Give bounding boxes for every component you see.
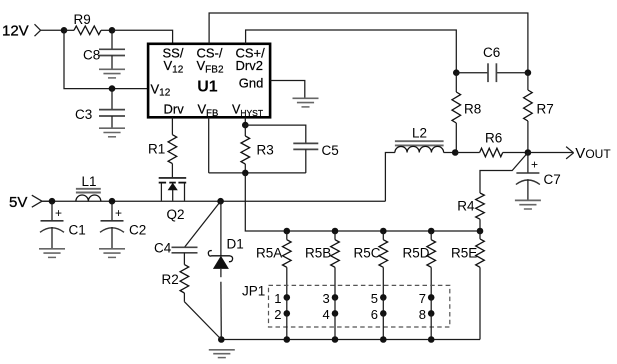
capacitor C6 <box>456 45 528 82</box>
node: R9 output junction <box>109 27 116 34</box>
capacitor C7 <box>516 153 561 201</box>
svg-text:R4: R4 <box>457 199 475 214</box>
wire: VFB pin down to feedback bar <box>208 117 210 173</box>
svg-text:C5: C5 <box>322 143 339 158</box>
wire: R9 junction to SS/V12 pin <box>112 30 173 44</box>
pin label CS-/VFB2 <box>197 45 224 75</box>
pin label Gnd <box>239 76 264 91</box>
wire: JP1 pin 4 to bottom rail <box>334 313 336 339</box>
svg-text:L2: L2 <box>412 126 427 141</box>
resistor R1 <box>148 117 177 177</box>
inductor L2 <box>395 126 455 153</box>
wire: Gnd pin to ground <box>270 81 305 99</box>
wire: bottom ground rail <box>221 339 480 341</box>
port 5V input <box>9 194 52 211</box>
svg-text:Drv2: Drv2 <box>236 58 263 73</box>
node: L2/R8/R6 junction <box>452 149 459 156</box>
pin label V12 (left) <box>151 82 171 99</box>
node: C6 left junction <box>453 69 460 76</box>
port VOUT <box>528 145 611 162</box>
wire: VHYST pin down <box>244 117 246 125</box>
svg-text:Q2: Q2 <box>167 207 185 222</box>
node: bottom rail junction <box>428 336 435 343</box>
svg-text:3: 3 <box>323 291 330 306</box>
svg-text:6: 6 <box>371 307 378 322</box>
node: R4/R5E junction <box>477 228 484 235</box>
ground (C7) <box>515 200 541 209</box>
wire: feedback node to divider rail <box>245 173 480 231</box>
resistor R8 <box>452 73 481 153</box>
resistor R9 <box>64 12 112 35</box>
resistor R5C <box>354 231 388 297</box>
node: R5A top junction <box>284 228 291 235</box>
svg-text:R8: R8 <box>464 102 481 117</box>
svg-text:+: + <box>531 158 538 172</box>
pin 1 of JP1 <box>274 291 290 306</box>
diode D1 <box>208 201 243 339</box>
node: R5C top junction <box>380 228 387 235</box>
pin label CS+/Drv2 <box>236 45 266 73</box>
node: C1 junction <box>49 198 56 205</box>
svg-text:R6: R6 <box>485 131 502 146</box>
svg-text:C1: C1 <box>69 223 86 238</box>
pin 6 of JP1 <box>371 297 387 321</box>
svg-text:1: 1 <box>274 291 281 306</box>
ground (C1) <box>39 249 65 258</box>
svg-text:R5D: R5D <box>403 246 430 261</box>
svg-text:4: 4 <box>323 307 330 322</box>
wire: JP1 pin 6 to bottom rail <box>382 313 384 339</box>
svg-text:C7: C7 <box>544 172 561 187</box>
svg-text:D1: D1 <box>227 237 244 252</box>
svg-text:R5A: R5A <box>256 246 282 261</box>
svg-text:C2: C2 <box>129 223 146 238</box>
wire: CS+/Drv2 pin to R8 top rail <box>246 30 457 73</box>
wire: JP1 pin 2 to bottom rail <box>286 313 288 339</box>
svg-text:L1: L1 <box>82 174 97 189</box>
capacitor C4 <box>154 201 221 255</box>
node: feedback node <box>242 170 249 177</box>
wire: 12V junction to V12 pin <box>64 30 148 88</box>
svg-text:R9: R9 <box>74 12 91 27</box>
pin 5 of JP1 <box>371 291 387 306</box>
pin label SS/V12 <box>163 45 184 75</box>
svg-text:Drv: Drv <box>164 102 185 117</box>
wire: rail riser to L2 <box>385 153 395 202</box>
wire: 5V rail <box>42 200 385 202</box>
node: VOUT node <box>525 149 532 156</box>
pin label VHYST <box>232 103 263 118</box>
node: bottom rail junction <box>332 336 339 343</box>
pin 3 of JP1 <box>323 291 339 306</box>
svg-text:R5B: R5B <box>305 246 331 261</box>
node: VHYST node <box>242 122 249 129</box>
ground (main) <box>209 350 235 358</box>
pin label VFB <box>198 102 219 119</box>
IC U1 box <box>148 44 270 118</box>
svg-text:R5E: R5E <box>451 246 477 261</box>
pin 8 of JP1 <box>419 297 435 321</box>
wire: VOUT node to R4 <box>480 153 528 194</box>
capacitor C1 <box>40 201 86 248</box>
wire: feedback bar <box>209 172 306 174</box>
ground (C8) <box>99 69 125 78</box>
svg-text:R7: R7 <box>537 102 554 117</box>
resistor R4 <box>457 193 484 231</box>
wire: CS-/VFB2 pin to R7 top rail <box>209 13 528 73</box>
resistor R2 <box>162 253 222 340</box>
ground (U1 Gnd) <box>293 98 319 107</box>
label JP1 <box>242 284 265 299</box>
svg-text:C3: C3 <box>75 107 92 122</box>
resistor R5A <box>256 231 291 297</box>
node: switch node junction <box>217 198 224 205</box>
node: main ground node <box>218 336 225 343</box>
svg-text:C6: C6 <box>483 45 500 60</box>
node: R5B top junction <box>332 228 339 235</box>
svg-text:R3: R3 <box>257 142 274 157</box>
svg-text:5V: 5V <box>9 194 27 211</box>
inductor L1 <box>76 174 101 201</box>
resistor R6 <box>455 131 528 157</box>
node: bottom rail junction <box>380 336 387 343</box>
svg-text:C8: C8 <box>83 48 100 63</box>
transistor Q2 <box>159 178 187 222</box>
resistor R3 <box>241 125 274 173</box>
pin 4 of JP1 <box>323 297 339 321</box>
svg-text:+: + <box>55 206 62 220</box>
jumper header JP1 outline <box>269 285 450 327</box>
svg-text:R5C: R5C <box>354 246 381 261</box>
node: R5D top junction <box>428 228 435 235</box>
svg-text:7: 7 <box>419 291 426 306</box>
svg-text:5: 5 <box>371 291 378 306</box>
node: 12V junction A <box>61 27 68 34</box>
svg-text:2: 2 <box>274 307 281 322</box>
svg-text:R2: R2 <box>162 272 179 287</box>
svg-text:Gnd: Gnd <box>239 76 264 91</box>
capacitor C5 <box>245 125 338 173</box>
resistor R5D <box>403 231 436 297</box>
node: C3 junction <box>109 85 116 92</box>
svg-text:VOUT: VOUT <box>575 145 611 162</box>
node: C2 junction <box>109 198 116 205</box>
resistor R5B <box>305 231 339 297</box>
svg-text:JP1: JP1 <box>242 284 265 299</box>
pin 7 of JP1 <box>419 291 435 306</box>
pin 2 of JP1 <box>274 297 290 321</box>
capacitor C2 <box>100 201 146 248</box>
wire: JP1 pin 8 to bottom rail <box>430 313 432 339</box>
node: C6 right junction <box>525 69 532 76</box>
svg-text:8: 8 <box>419 307 426 322</box>
ground (C3) <box>99 128 125 137</box>
node: bottom rail junction <box>284 336 291 343</box>
IC designator U1 <box>197 79 218 96</box>
svg-text:C4: C4 <box>154 241 172 256</box>
resistor R7 <box>524 73 554 153</box>
svg-text:U1: U1 <box>197 79 218 96</box>
pin label Drv <box>164 102 185 117</box>
port 12V input <box>2 23 64 40</box>
capacitor C8 <box>83 30 125 69</box>
svg-text:12V: 12V <box>2 23 29 40</box>
svg-text:+: + <box>115 206 122 220</box>
capacitor C3 <box>75 89 125 128</box>
svg-text:R1: R1 <box>148 142 165 157</box>
ground (C2) <box>99 249 125 258</box>
resistor R5E <box>451 231 484 340</box>
